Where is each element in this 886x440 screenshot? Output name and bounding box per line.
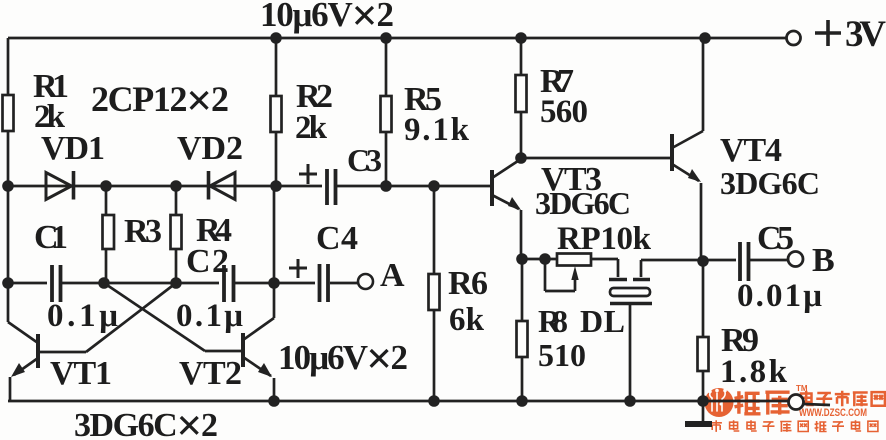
svg-text:2CP12×2: 2CP12×2: [91, 75, 229, 126]
transistor VT4: [672, 38, 703, 261]
wire row B between C1 and C2: [62, 282, 219, 285]
svg-text:0.1μ: 0.1μ: [47, 298, 118, 334]
wire row A left segment: [8, 185, 322, 188]
node R4 bottom: [170, 277, 182, 289]
svg-text:9.1k: 9.1k: [404, 112, 470, 148]
svg-text:VT4: VT4: [720, 132, 782, 169]
node VT3 collector: [515, 152, 527, 164]
capacitor C5: [740, 242, 749, 281]
wire VT3 emitter node to RP: [522, 258, 557, 261]
polarity plus of C3: [299, 164, 317, 184]
wire left vertical (top rail to R1): [7, 38, 10, 95]
node R5 top: [380, 32, 392, 44]
emitter arrowheads: [11, 169, 701, 377]
svg-text:C1: C1: [34, 219, 68, 256]
wire VT1 collector diagonal: [8, 322, 38, 343]
capacitor C3: [327, 169, 336, 205]
wire DL right electrode up: [640, 260, 643, 277]
svg-text:C2: C2: [186, 243, 229, 280]
wire row B left segment: [8, 282, 47, 285]
wire VT2 base cross-coupling diagonal to R3 node: [104, 283, 205, 351]
svg-text:0.01μ: 0.01μ: [737, 278, 822, 314]
node R2 bottom: [270, 180, 282, 192]
svg-text:TM: TM: [796, 384, 808, 393]
node VT4 emitter / R9 / C5: [697, 255, 709, 267]
svg-text:1.8k: 1.8k: [720, 354, 788, 390]
wire bottom ground rail: [8, 400, 788, 403]
transistor VT1: [10, 334, 86, 401]
resistor R2: [271, 96, 282, 132]
svg-text:3DG6C: 3DG6C: [535, 185, 631, 221]
node VT2 emitter ground: [268, 395, 280, 407]
svg-text:2k: 2k: [295, 110, 328, 146]
svg-text:WWW.DZSC.COM: WWW.DZSC.COM: [799, 407, 867, 419]
resistor R6 column wires: [433, 186, 436, 401]
resistor R5: [381, 96, 392, 132]
wire row B from C2 to VT2 collector column: [235, 282, 274, 285]
svg-text:C5: C5: [757, 220, 794, 257]
node R9 bottom / ground: [697, 395, 709, 407]
node VT4 collector top: [699, 32, 711, 44]
wire C4 to terminal A: [330, 282, 359, 285]
watermark logo circle: [705, 388, 734, 417]
wire DL output to C5: [641, 259, 736, 262]
svg-text:R8: R8: [538, 303, 568, 339]
node row B left: [2, 277, 14, 289]
arrow VT1 emitter: [11, 363, 25, 377]
terminal on bottom rail: [789, 395, 804, 410]
svg-text:VD2: VD2: [177, 130, 243, 167]
resistor R9 column wires: [702, 261, 705, 401]
potentiometer RP wiper wire: [545, 261, 575, 291]
node VT2 collector row B: [268, 277, 280, 289]
node R3 bottom: [98, 277, 110, 289]
terminal B: [788, 252, 803, 267]
svg-text:10μ6V×2: 10μ6V×2: [278, 333, 408, 384]
svg-text:R6: R6: [448, 265, 488, 302]
ceramic discriminator DL: [609, 280, 652, 304]
resistor R6: [429, 274, 440, 310]
resistor R7: [516, 75, 527, 112]
svg-text:A: A: [380, 257, 405, 294]
resistor R5 column wires: [385, 38, 388, 186]
wire DL bottom electrode to ground rail: [629, 303, 632, 401]
svg-text:3DG6C: 3DG6C: [720, 165, 820, 201]
transistor VT3: [492, 159, 521, 259]
svg-text:VD1: VD1: [41, 130, 105, 167]
capacitor C2: [224, 265, 234, 302]
resistor R3: [103, 215, 115, 249]
potentiometer RP wiper arrow: [571, 266, 578, 280]
transistor VT2: [205, 318, 274, 401]
terminal A: [358, 274, 373, 289]
node DL bottom: [624, 395, 636, 407]
svg-text:0.1μ: 0.1μ: [176, 298, 243, 334]
arrow VT3 emitter: [508, 197, 521, 210]
svg-text:RP10k: RP10k: [557, 221, 652, 257]
wire VT3 collector to R7 and VT4 base: [521, 157, 671, 160]
ground: [685, 401, 712, 424]
resistor R3 column wires: [105, 186, 108, 283]
svg-text:VT2: VT2: [179, 355, 242, 392]
svg-text:R3: R3: [124, 213, 162, 250]
resistor R2 column wires: [275, 38, 278, 186]
svg-text:560: 560: [540, 94, 588, 130]
wire stub right of bottom terminal: [804, 404, 830, 405]
resistor R4: [171, 215, 182, 249]
svg-text:B: B: [812, 242, 835, 279]
resistor R8 column wires: [521, 259, 524, 401]
svg-text:VT1: VT1: [50, 355, 112, 392]
svg-text:DL: DL: [580, 303, 625, 339]
arrow VT4 emitter: [688, 169, 701, 182]
svg-text:3V: 3V: [845, 14, 886, 55]
wire row B from column to C4: [274, 282, 315, 285]
wire left vertical (R1 to VT1 collector bend): [7, 131, 10, 322]
resistor R8: [517, 321, 528, 357]
polarity plus of C4: [289, 259, 307, 278]
capacitor C1: [52, 265, 61, 302]
wire C5 to terminal B: [750, 259, 788, 262]
diode VD1: [46, 171, 74, 200]
resistor R7 column wires: [520, 38, 523, 157]
resistor R4 column wires: [175, 186, 178, 283]
potentiometer RP body: [557, 254, 591, 266]
svg-text:C4: C4: [316, 220, 358, 257]
resistor R1: [3, 95, 14, 131]
resistor R9: [698, 337, 709, 371]
node R8 bottom: [516, 395, 528, 407]
node R6 top: [428, 180, 440, 192]
wire top supply rail: [8, 37, 786, 40]
node VT3 emitter / R8: [516, 253, 528, 265]
node RP left terminal: [539, 253, 551, 265]
node R4 top: [170, 180, 182, 192]
wire VT2 collector column: [273, 186, 276, 318]
wire row A from C3 to VT3 base: [337, 185, 491, 188]
node R2 top: [270, 32, 282, 44]
terminal +3V: [787, 31, 801, 45]
svg-text:C3: C3: [347, 142, 382, 178]
svg-text:6k: 6k: [449, 302, 485, 338]
node row A left: [2, 180, 14, 192]
svg-text:3DG6C×2: 3DG6C×2: [74, 400, 218, 440]
plus sign of +3V: [815, 20, 841, 46]
arrow VT2 emitter: [258, 363, 272, 377]
wire RP to DL left electrode: [591, 259, 618, 277]
node R5 bottom: [380, 180, 392, 192]
node R7 top: [515, 32, 527, 44]
watermark: [705, 384, 885, 432]
node R3 top: [100, 180, 112, 192]
diode VD2: [209, 171, 236, 200]
node R6 bottom: [428, 395, 440, 407]
wire VT1 base cross-coupling diagonal to R4 node: [86, 283, 176, 352]
svg-text:510: 510: [538, 337, 586, 373]
capacitor C4: [320, 264, 329, 302]
